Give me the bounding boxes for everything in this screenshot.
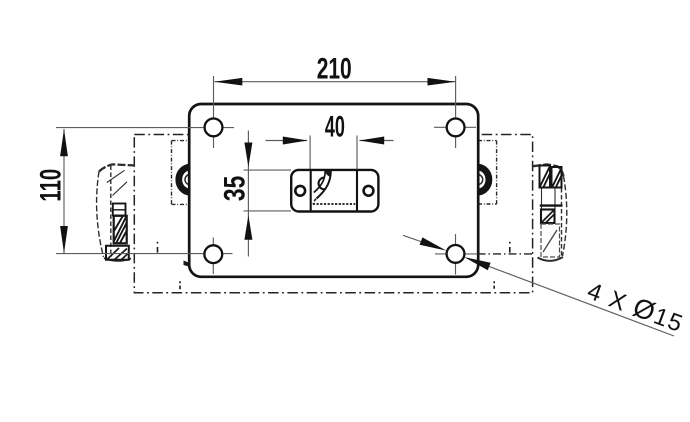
svg-text:40: 40: [325, 111, 345, 144]
svg-text:110: 110: [35, 169, 68, 202]
svg-text:210: 210: [317, 53, 352, 85]
svg-text:35: 35: [217, 176, 251, 202]
